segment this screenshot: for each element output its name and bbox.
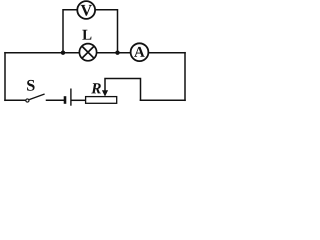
wire middle-left horizontal to lamp <box>5 52 80 54</box>
node junction right of lamp <box>115 51 119 55</box>
rheostat R <box>86 90 117 103</box>
wire bottom-left to switch <box>5 99 26 101</box>
label S <box>27 80 34 91</box>
wire voltmeter branch left riser <box>63 10 77 53</box>
switch S <box>26 94 45 102</box>
wire bottom-right to rheostat slider leg <box>141 99 186 101</box>
wire battery to rheostat <box>72 99 86 101</box>
wire voltmeter branch right riser <box>95 10 118 53</box>
wire ammeter to right edge <box>148 52 185 54</box>
voltmeter V <box>77 1 95 19</box>
wire lamp to ammeter <box>97 52 131 54</box>
wire left edge vertical <box>4 53 6 101</box>
node junction left of lamp <box>61 51 65 55</box>
wire rheostat slider arm <box>105 79 141 101</box>
label R <box>91 83 101 93</box>
lamp L <box>79 44 96 61</box>
wire right edge vertical <box>184 53 186 101</box>
wire switch to battery <box>47 99 64 101</box>
battery cell <box>65 89 71 106</box>
label L <box>82 30 91 40</box>
ammeter A <box>131 43 149 61</box>
